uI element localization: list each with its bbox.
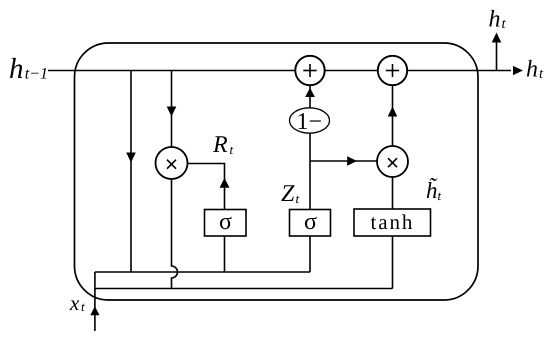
arrowhead: h(t) top output [492, 33, 502, 43]
arrowhead: x(t) input up [90, 306, 99, 315]
svg-text:t: t [539, 66, 544, 82]
multiply sign 2 [388, 158, 397, 167]
svg-text:h̃: h̃ [426, 177, 438, 203]
wire: x(t) input vertical [94, 272, 96, 331]
wire: sigma Z input from x bus [309, 237, 311, 273]
label h(t-1) [9, 53, 48, 85]
plus circle 2 [378, 56, 407, 85]
label h(t) top [489, 7, 507, 33]
wire: tanh output up to update multiply [392, 178, 394, 210]
wire: h(t-1) branch 2 down to reset multiply [171, 71, 173, 148]
wire: Z gate output up to one-minus [309, 134, 311, 210]
svg-text:R: R [212, 132, 228, 158]
label Z(t) [281, 181, 300, 207]
label h-tilde(t) [426, 177, 442, 203]
wire: update multiply output up into plus 2 [392, 86, 394, 146]
label x(t) [69, 291, 85, 315]
wire: tanh input from candidate bus [392, 236, 394, 289]
wire: x bus (line A) [95, 271, 310, 273]
svg-text:t: t [438, 188, 442, 203]
arrowhead: branch 1 down [126, 153, 136, 163]
svg-text:tanh: tanh [371, 210, 415, 234]
arrowhead: Z branch right [347, 156, 357, 166]
svg-text:Z: Z [281, 181, 295, 207]
svg-text:t: t [230, 142, 234, 157]
cell body rounded rectangle [75, 43, 479, 300]
multiply sign 1 [167, 160, 176, 169]
svg-text:x: x [69, 291, 80, 315]
wire: candidate bus (line B) [95, 288, 393, 290]
wire: h(t-1) branch 1 down [130, 71, 132, 273]
plus circle 1 [295, 56, 324, 85]
wire: R gate output up and left into multiply [188, 164, 225, 210]
svg-text:1−: 1− [297, 109, 323, 135]
arrowhead: into plus 1 [305, 88, 315, 97]
tanh box [354, 209, 431, 236]
wire: h(t) top output [496, 42, 498, 71]
svg-text:h: h [9, 53, 24, 85]
svg-text:t−1: t−1 [25, 66, 48, 83]
svg-text:σ: σ [219, 209, 232, 235]
multiply circle 2 (update) [377, 146, 408, 177]
svg-text:h: h [489, 7, 501, 33]
svg-text:h: h [526, 57, 538, 83]
wire: Z branch right to update multiply [310, 160, 378, 162]
plus sign 2 [386, 64, 399, 77]
one-minus ellipse [290, 108, 330, 133]
label h(t) right [526, 57, 544, 83]
label R(t) [212, 132, 234, 158]
multiply circle 1 (reset) [156, 147, 188, 179]
sigma box R [205, 210, 247, 237]
arrowhead: h(t) right output [513, 66, 523, 75]
svg-text:σ: σ [304, 209, 317, 235]
svg-text:t: t [296, 191, 300, 206]
arrowhead: into plus 2 [388, 107, 398, 117]
svg-text:t: t [81, 299, 85, 314]
wire: sigma R input from x bus [224, 237, 226, 273]
arrowhead: R gate output up [220, 178, 230, 188]
plus sign 1 [303, 64, 316, 77]
arrowhead: branch 2 down [167, 107, 177, 117]
sigma box Z [290, 210, 331, 237]
wire: reset multiply output down with hop over x bus [172, 179, 178, 289]
wire: h(t-1) to h(t) main horizontal bus [48, 70, 511, 72]
wire: one-minus output up into plus 1 [309, 86, 311, 108]
svg-text:t: t [502, 16, 507, 32]
